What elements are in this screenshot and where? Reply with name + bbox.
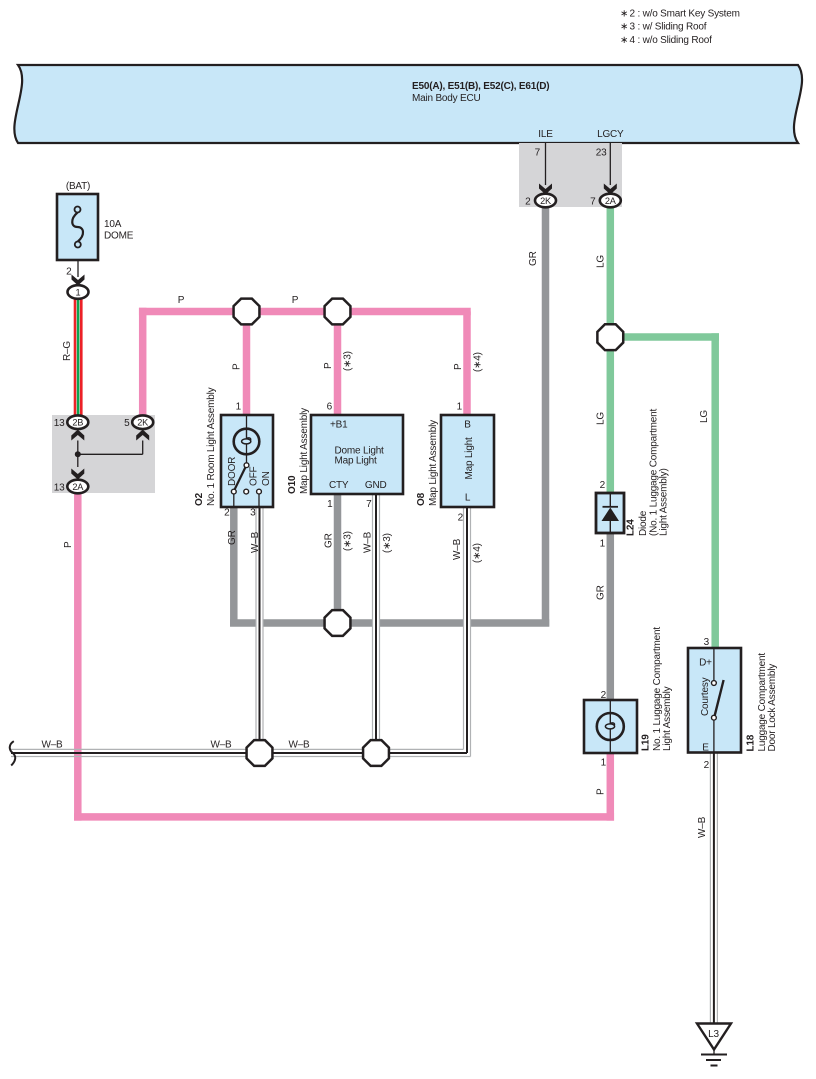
svg-text:W–B: W–B	[288, 740, 310, 751]
connector 2K (ECU side)	[525, 194, 556, 208]
ECU band E50/E51/E52/E61 Main Body ECU	[14, 65, 802, 143]
svg-text:L: L	[465, 493, 471, 504]
bulb symbol L19	[597, 713, 624, 753]
svg-text:3 : w/ Sliding Roof: 3 : w/ Sliding Roof	[630, 22, 707, 33]
connector 2A (ECU side)	[590, 194, 621, 208]
svg-text:LG: LG	[596, 412, 607, 425]
svg-text:LG: LG	[596, 255, 607, 268]
svg-text:CTY: CTY	[329, 480, 349, 491]
svg-text:LG: LG	[699, 410, 710, 423]
svg-text:∗: ∗	[620, 9, 628, 20]
luggage door lock L18	[688, 648, 741, 753]
svg-text:23: 23	[596, 148, 607, 159]
connector shade box 2B/2K/2A	[52, 415, 155, 493]
svg-text:13: 13	[54, 418, 65, 429]
label O8 Map Light Assembly	[416, 420, 439, 506]
switch O2 DOOR/OFF/ON	[227, 457, 272, 507]
svg-text:GR: GR	[596, 585, 607, 600]
svg-text:+B1: +B1	[330, 420, 348, 431]
wire W-B from O2 pin 3 down to bus	[256, 507, 264, 757]
svg-text:2: 2	[224, 508, 230, 519]
label L19 No. 1 Luggage Compartment Light Assembly	[641, 627, 674, 751]
svg-text:2: 2	[601, 690, 607, 701]
junction octagon GR bus	[325, 610, 351, 636]
pin ILE of ECU	[535, 129, 554, 185]
svg-text:Courtesy: Courtesy	[700, 677, 711, 716]
svg-text:ILE: ILE	[538, 129, 553, 140]
pin LGCY of ECU	[596, 129, 624, 185]
svg-text:Light Assembly): Light Assembly)	[659, 468, 670, 536]
svg-text:Map Light: Map Light	[464, 437, 475, 480]
svg-text:GND: GND	[365, 480, 387, 491]
svg-text:Map Light Assembly: Map Light Assembly	[428, 420, 439, 506]
svg-text:W–B: W–B	[363, 531, 374, 553]
svg-text:Map Light Assembly: Map Light Assembly	[299, 408, 310, 494]
legend note *4	[620, 35, 712, 46]
svg-text:(∗4): (∗4)	[472, 543, 483, 563]
pin 2 of fuse	[66, 260, 78, 278]
fuse 10A DOME	[57, 181, 134, 260]
svg-text:4 : w/o Sliding Roof: 4 : w/o Sliding Roof	[630, 35, 713, 46]
connector 2K (junction box)	[124, 415, 153, 429]
svg-text:3: 3	[250, 508, 256, 519]
svg-text:O8: O8	[416, 492, 427, 506]
luggage light L19	[584, 700, 637, 753]
svg-text:P: P	[323, 362, 334, 369]
arrowhead down into 2A	[71, 469, 84, 480]
svg-text:E: E	[702, 743, 709, 754]
svg-text:R–G: R–G	[62, 341, 73, 361]
svg-text:Light Assembly: Light Assembly	[662, 686, 673, 751]
svg-text:13: 13	[54, 483, 65, 494]
connector 2B (junction box)	[54, 415, 89, 429]
svg-text:2K: 2K	[540, 196, 552, 206]
svg-text:∗: ∗	[620, 35, 628, 46]
connector 2A (junction box)	[54, 480, 89, 494]
svg-text:2: 2	[704, 760, 710, 771]
svg-text:P: P	[178, 295, 185, 306]
room light assembly O2	[221, 415, 273, 507]
svg-text:10A: 10A	[104, 219, 122, 230]
wire R-G from connector 1 down to 2B	[74, 299, 83, 416]
svg-text:3: 3	[704, 637, 710, 648]
svg-text:5: 5	[124, 418, 130, 429]
svg-text:P: P	[292, 295, 299, 306]
svg-text:GR: GR	[528, 251, 539, 266]
svg-text:2B: 2B	[72, 418, 83, 428]
svg-text:P: P	[63, 541, 74, 548]
svg-text:(∗3): (∗3)	[343, 531, 354, 551]
connector shade box below ECU	[519, 143, 622, 207]
junction octagon P (O2 branch)	[234, 299, 260, 325]
junction octagon W-B bus (O10)	[363, 740, 389, 766]
svg-text:1: 1	[327, 499, 333, 510]
svg-text:6: 6	[327, 402, 333, 413]
svg-text:(∗4): (∗4)	[473, 352, 484, 372]
legend note *2	[620, 9, 740, 20]
wire GR from O10 CTY down to bus octagon	[334, 494, 342, 623]
arrowhead up into 2B	[71, 430, 84, 441]
svg-text:Main Body ECU: Main Body ECU	[412, 93, 481, 104]
map light assembly O8	[441, 415, 494, 507]
svg-text:1: 1	[236, 402, 242, 413]
label O2 No. 1 Room Light Assembly	[194, 387, 217, 506]
svg-text:1: 1	[76, 288, 81, 298]
svg-text:L3: L3	[708, 1029, 719, 1040]
label O10 Map Light Assembly	[287, 408, 310, 494]
junction dot	[75, 451, 81, 457]
junction octagon W-B bus (O2)	[247, 740, 273, 766]
svg-text:DOOR: DOOR	[227, 457, 238, 486]
svg-text:Map Light: Map Light	[335, 456, 378, 467]
svg-text:2 : w/o Smart Key System: 2 : w/o Smart Key System	[630, 9, 740, 20]
svg-text:LGCY: LGCY	[597, 129, 624, 140]
svg-text:Diode: Diode	[638, 510, 649, 536]
svg-text:7: 7	[590, 197, 596, 208]
svg-text:GR: GR	[324, 533, 335, 548]
svg-text:P: P	[232, 363, 243, 370]
wire W-B from O8 pin 2 down to bus corner	[463, 507, 471, 757]
wire LG branch across and down to L18 pin 3	[610, 333, 719, 648]
svg-text:∗: ∗	[620, 22, 628, 33]
wire GR bus from O2 pin 2 across to 2K drop	[230, 507, 549, 627]
svg-text:W–B: W–B	[697, 816, 708, 838]
svg-text:(∗3): (∗3)	[382, 533, 393, 553]
svg-text:OFF: OFF	[249, 467, 260, 486]
svg-text:2: 2	[458, 513, 464, 524]
break symbol at left end of W-B bus	[10, 741, 15, 765]
svg-text:2: 2	[66, 267, 72, 278]
svg-text:W–B: W–B	[452, 538, 463, 560]
arrowhead into connector 1	[72, 275, 85, 286]
svg-text:7: 7	[366, 499, 372, 510]
svg-text:E50(A), E51(B), E52(C), E61(D): E50(A), E51(B), E52(C), E61(D)	[412, 81, 549, 92]
svg-text:(BAT): (BAT)	[66, 181, 90, 192]
wire GR from ECU 2K down to bus	[542, 207, 550, 627]
wire W-B from L18 pin 2 down to ground	[710, 753, 717, 1024]
svg-text:W–B: W–B	[250, 531, 261, 553]
svg-text:L24: L24	[626, 519, 637, 536]
svg-text:7: 7	[535, 148, 541, 159]
svg-text:GR: GR	[227, 530, 238, 545]
ground L3	[697, 1024, 731, 1066]
wire W-B ground bus across bottom	[11, 749, 471, 756]
svg-text:O2: O2	[194, 492, 205, 506]
wire P branch down to O8 pin 1	[463, 312, 471, 416]
diode L24	[596, 493, 624, 533]
svg-text:O10: O10	[287, 475, 298, 494]
wire P from 2A down, across bottom, up to L19 pin 1	[74, 493, 614, 821]
svg-text:1: 1	[457, 402, 463, 413]
svg-text:2A: 2A	[72, 482, 84, 492]
legend note *3	[620, 22, 707, 33]
svg-text:ON: ON	[261, 471, 272, 486]
connector 1	[68, 285, 89, 299]
svg-text:L19: L19	[641, 734, 652, 751]
wire links inside junction box	[78, 441, 143, 468]
svg-text:P: P	[453, 363, 464, 370]
label L18 Luggage Compartment Door Lock Assembly	[746, 653, 779, 752]
wire P branch down to O2 pin 1	[243, 312, 251, 416]
wire LG from ECU 2A down to diode L24	[607, 207, 615, 493]
courtesy switch L18	[700, 677, 724, 752]
svg-text:W–B: W–B	[41, 740, 63, 751]
svg-text:DOME: DOME	[104, 231, 134, 242]
junction octagon LG	[597, 324, 623, 350]
bulb symbol O2	[234, 429, 260, 463]
svg-text:1: 1	[601, 758, 607, 769]
svg-text:2: 2	[600, 480, 606, 491]
junction octagon P (O10 branch)	[325, 299, 351, 325]
svg-text:L18: L18	[746, 734, 757, 751]
wire W-B from O10 GND down to bus	[372, 494, 380, 757]
label L24 Diode (No. 1 Luggage Compartment Light Assembly)	[626, 408, 670, 536]
arrowhead into 2K	[539, 184, 552, 195]
svg-text:W–B: W–B	[210, 740, 232, 751]
wire P branch down to O10 pin 6	[334, 312, 342, 416]
svg-text:P: P	[596, 788, 607, 795]
arrowhead up into 2K	[136, 430, 149, 441]
svg-text:2: 2	[525, 197, 531, 208]
wire GR from L24 pin 1 down to L19 pin 2	[607, 533, 615, 700]
svg-text:B: B	[464, 420, 471, 431]
svg-text:2K: 2K	[137, 418, 149, 428]
svg-text:(∗3): (∗3)	[343, 351, 354, 371]
svg-text:D+: D+	[699, 658, 712, 669]
svg-text:2A: 2A	[605, 196, 617, 206]
svg-text:Door Lock Assembly: Door Lock Assembly	[767, 664, 778, 752]
svg-text:No. 1 Room Light Assembly: No. 1 Room Light Assembly	[206, 387, 217, 506]
wire P from 2K up and across top	[139, 308, 471, 416]
svg-text:1: 1	[600, 539, 606, 550]
map light assembly O10 dome light	[311, 415, 403, 494]
arrowhead into 2A	[604, 184, 617, 195]
